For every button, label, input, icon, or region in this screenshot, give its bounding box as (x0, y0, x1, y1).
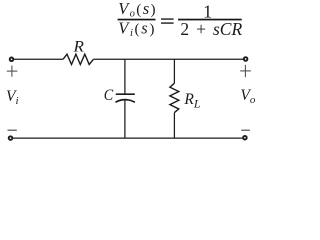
terminal output top (open circle) (244, 57, 248, 61)
transfer function equation Vo(s)/Vi(s) = 1/(2+sCR) (118, 0, 243, 39)
minus sign output polarity (241, 129, 250, 131)
plus sign output polarity (240, 65, 251, 77)
plus sign input polarity (7, 66, 17, 77)
capacitor C (116, 94, 135, 102)
terminal input bottom (open circle) (9, 136, 13, 140)
svg-text:Vi: Vi (6, 88, 19, 107)
svg-text:Vo(s): Vo(s) (118, 0, 155, 20)
terminal input top (open circle) (10, 58, 14, 62)
wire capacitor top lead (124, 59, 126, 93)
svg-text:R: R (72, 37, 83, 56)
minus sign input polarity (8, 129, 17, 131)
wire top right (resistor R to output + terminal) (93, 58, 243, 60)
wire top left (input + terminal to resistor R) (13, 58, 63, 60)
svg-text:C: C (104, 87, 114, 104)
resistor RL (170, 83, 179, 112)
wire resistor RL bottom lead (173, 113, 175, 139)
svg-text:RL: RL (183, 91, 200, 111)
terminal output bottom (open circle) (243, 136, 247, 140)
wire bottom (input - terminal to output - terminal) (13, 137, 242, 139)
svg-text:Vo: Vo (240, 87, 255, 106)
wire resistor RL top lead (173, 59, 175, 83)
svg-text:2 + sCR: 2 + sCR (180, 19, 242, 39)
resistor R (63, 54, 93, 64)
svg-text:Vi(s): Vi(s) (118, 18, 154, 39)
wire capacitor bottom lead (124, 100, 126, 138)
